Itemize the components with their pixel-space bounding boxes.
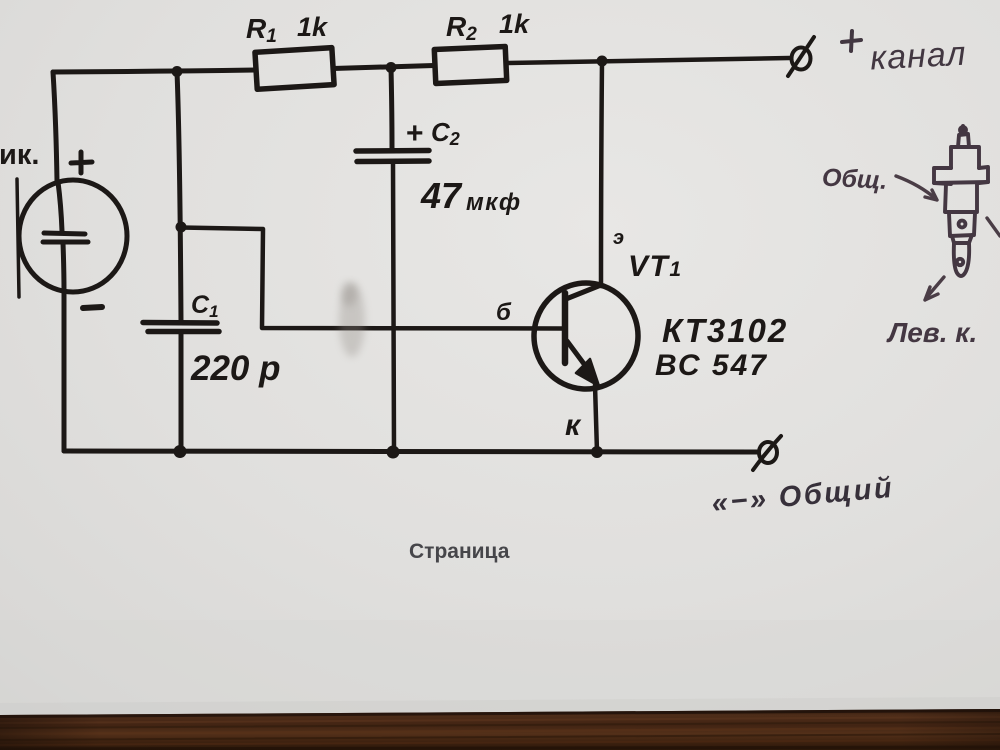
jack tip spike <box>961 126 965 134</box>
jack bottom pin <box>954 243 969 276</box>
wire: left vertical bus x=181 top section <box>177 72 181 323</box>
transistor VT1 collector stroke <box>566 285 601 299</box>
microphone BM1 body circle <box>19 180 127 292</box>
svg-text:ВС 547: ВС 547 <box>655 349 768 382</box>
wire: R1 right to R2 left <box>333 66 434 69</box>
svg-text:мкф: мкф <box>466 189 522 216</box>
svg-text:1k: 1k <box>499 9 531 39</box>
microphone internal electrode top lead <box>58 182 62 231</box>
jack taper <box>952 235 972 243</box>
terminal: + канал output (circle with slash) <box>792 48 811 70</box>
microphone capacitor plate bottom <box>43 240 88 245</box>
resistor R1 <box>255 48 334 90</box>
arrow line to right channel (cut off) <box>987 218 1000 236</box>
microphone internal electrode bottom lead <box>63 243 64 292</box>
capacitor C2 plate bottom <box>357 158 429 164</box>
jack neck <box>958 134 969 147</box>
connector XS1: 3.5mm jack plug sketch <box>934 126 988 276</box>
arrow to left channel tip <box>927 277 944 297</box>
node junction dot top-left (x=178,y=71) <box>172 66 183 77</box>
wire: emitter to ground rail <box>595 385 597 452</box>
microphone side stroke <box>17 179 19 297</box>
wire: mic top drop <box>53 72 57 181</box>
transistor VT1 emitter stroke with arrow <box>567 341 590 372</box>
wire: collector vertical from top rail to transistor <box>601 61 602 286</box>
node junction dot bottom x=393 <box>387 446 400 459</box>
svg-text:+: + <box>406 117 424 150</box>
label + канал net name <box>842 31 861 51</box>
svg-text:47: 47 <box>420 175 463 216</box>
wire: C2 vertical from R1-R2 node down to plates <box>391 68 392 150</box>
wire: top rail mic corner to R1 left <box>53 70 255 72</box>
node junction dot collector branch (x=602) <box>597 56 608 67</box>
wire: C2 bottom plate down to ground rail <box>393 163 394 451</box>
svg-text:э: э <box>613 227 624 249</box>
node junction dot bottom x=597 <box>591 446 603 458</box>
svg-text:к: к <box>565 409 582 442</box>
jack mid body <box>945 184 977 212</box>
svg-text:ик.: ик. <box>0 139 39 171</box>
microphone + polarity mark <box>71 152 92 173</box>
svg-text:КТ3102: КТ3102 <box>662 312 788 349</box>
wire: base branch from node to transistor base <box>181 228 563 329</box>
microphone - polarity mark <box>83 307 102 308</box>
transistor VT1 body circle <box>530 280 641 393</box>
wire: bottom common rail <box>64 451 757 452</box>
jack cross bar <box>934 167 988 184</box>
svg-text:1k: 1k <box>297 12 329 42</box>
capacitor C2 plate top <box>356 148 429 154</box>
transistor VT1 base bar <box>562 293 569 363</box>
capacitor C1 plate top <box>143 320 217 326</box>
node junction dot x=181 y=227 <box>176 222 187 233</box>
arrow from Общ. to jack body <box>896 176 936 199</box>
jack upper body <box>951 147 979 168</box>
node junction dot bottom x=180 <box>174 445 187 458</box>
svg-text:220 p: 220 p <box>190 349 281 388</box>
wire: R2 right to + output terminal <box>506 58 789 63</box>
svg-text:Страница: Страница <box>409 540 510 563</box>
pencil smudge <box>339 283 365 357</box>
wood table strip <box>0 709 1000 750</box>
jack lower segment <box>949 213 975 236</box>
capacitor C1 plate bottom <box>148 329 219 335</box>
wire: mic bottom to ground rail <box>62 292 67 451</box>
svg-text:Лев. к.: Лев. к. <box>886 317 977 348</box>
terminal: - Общий output (circle with slash) <box>759 442 777 463</box>
svg-text:б: б <box>496 299 512 326</box>
microphone capacitor plate top <box>44 233 85 234</box>
node junction dot between R1 and R2 (x=391) <box>386 62 397 73</box>
svg-text:канал: канал <box>869 35 967 78</box>
svg-text:Общ.: Общ. <box>821 164 888 195</box>
wire: left vertical bus x=181 below C1 <box>179 333 184 451</box>
resistor R2 <box>434 46 506 83</box>
